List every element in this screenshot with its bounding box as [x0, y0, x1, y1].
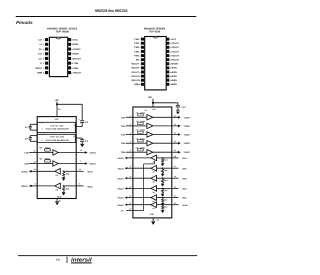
- wire EN riser: [154, 161, 156, 164]
- svg-text:GND: GND: [73, 43, 78, 46]
- ground R2 right: [162, 172, 164, 175]
- svg-text:R5IN: R5IN: [182, 197, 187, 200]
- ground R4 right: [162, 192, 164, 195]
- svg-text:7: 7: [140, 63, 141, 66]
- svg-text:23: 23: [174, 123, 176, 126]
- svg-text:R1OUT: R1OUT: [118, 157, 125, 160]
- svg-text:4: 4: [43, 53, 44, 56]
- node U2 pin 15 R3IN: [166, 75, 169, 78]
- node U2 pin 2 T2IN: [141, 42, 144, 45]
- svg-text:T3OUT: T3OUT: [184, 134, 191, 137]
- svg-text:T1IN: T1IN: [24, 152, 29, 155]
- svg-text:R1OUT: R1OUT: [73, 57, 81, 60]
- svg-text:8: 8: [140, 67, 141, 70]
- svg-text:R4IN: R4IN: [182, 188, 187, 191]
- svg-text:12: 12: [157, 219, 159, 222]
- wire VCC to C1 bypass: [153, 102, 178, 104]
- svg-text:+5V: +5V: [148, 96, 153, 99]
- charge pump block voltage doubler: [37, 122, 75, 132]
- node U2 pin 16 R2IN: [166, 71, 169, 74]
- node U2 pin 20 T4OUT: [166, 54, 169, 57]
- node U1 pin 16 VCC: [68, 38, 71, 41]
- svg-text:3: 3: [43, 48, 44, 51]
- svg-text:3: 3: [140, 46, 141, 49]
- node U2 pin 4 T4IN: [141, 50, 144, 53]
- svg-text:C1-: C1-: [39, 48, 43, 51]
- svg-text:T4IN: T4IN: [134, 50, 139, 53]
- capacitor C1 bypass: [176, 104, 180, 106]
- node U1 pin 7 T2OUT: [45, 66, 48, 69]
- svg-text:R2: R2: [56, 189, 58, 192]
- svg-text:9: 9: [140, 71, 141, 74]
- svg-text:16: 16: [174, 175, 176, 178]
- svg-text:R2IN: R2IN: [88, 185, 93, 188]
- svg-text:9: 9: [71, 71, 72, 74]
- wire T4OUT output: [153, 142, 178, 144]
- wire R4OUT output left: [133, 187, 151, 189]
- op-amp receiver R6 right: [151, 202, 157, 208]
- node U2 pin 5 T5IN: [141, 54, 144, 57]
- svg-text:R5OUT: R5OUT: [118, 197, 125, 200]
- svg-text:24: 24: [174, 114, 176, 117]
- svg-text:R2IN: R2IN: [182, 167, 187, 170]
- svg-text:+5V: +5V: [54, 99, 59, 102]
- svg-text:4: 4: [140, 50, 141, 53]
- wire R1IN input right: [172, 157, 179, 159]
- wire T1OUT output: [58, 152, 85, 154]
- resistor 5k R1: [64, 170, 77, 172]
- node U1 pin 15 GND: [68, 43, 71, 46]
- resistor 5k R6 right: [157, 204, 172, 206]
- svg-text:R1: R1: [56, 174, 58, 177]
- wire SHDN input right: [172, 204, 179, 206]
- op-amp receiver R3 right: [151, 175, 157, 181]
- svg-text:R1IN: R1IN: [88, 171, 93, 174]
- svg-text:T1IN: T1IN: [121, 116, 126, 119]
- ground R5 right: [162, 202, 164, 205]
- svg-text:5: 5: [140, 54, 141, 57]
- wire T2OUT output: [58, 163, 85, 165]
- op-amp U3 functional block HIN202: [37, 117, 76, 199]
- svg-text:15: 15: [59, 200, 61, 203]
- svg-text:11: 11: [129, 195, 131, 198]
- op-amp driver T2: [37, 163, 53, 165]
- svg-text:R1OUT: R1OUT: [132, 63, 140, 66]
- node U1 pin 10 T2IN: [68, 66, 71, 69]
- wire T4IN input: [126, 142, 133, 144]
- node U2 pin 22 T2OUT: [166, 46, 169, 49]
- svg-text:T2OUT: T2OUT: [35, 67, 43, 70]
- svg-text:R5OUT: R5OUT: [118, 204, 125, 207]
- svg-text:VOLTAGE DOUBLER: VOLTAGE DOUBLER: [45, 128, 69, 131]
- wire footer-rule: [18, 254, 197, 257]
- node U2 pin 24 VCC: [166, 38, 169, 41]
- svg-text:T1OUT: T1OUT: [184, 116, 191, 119]
- svg-text:22: 22: [174, 132, 176, 135]
- wire T5OUT output: [153, 151, 178, 153]
- svg-text:VOLTAGE INVERTER: VOLTAGE INVERTER: [45, 139, 69, 142]
- node U1 pin 5 C2-: [45, 57, 48, 60]
- node U2 pin 9 R3OUT: [141, 71, 144, 74]
- node U2 pin 10 R4OUT: [141, 75, 144, 78]
- svg-text:5: 5: [130, 149, 131, 152]
- svg-text:R2OUT: R2OUT: [132, 67, 140, 70]
- wire R1OUT output: [37, 170, 55, 172]
- resistor 5k R1 right: [157, 157, 172, 159]
- svg-text:T1OUT: T1OUT: [73, 48, 81, 51]
- node U2 pin 18 SHDN: [166, 62, 169, 65]
- svg-text:6: 6: [74, 135, 75, 138]
- wire R2IN input right: [172, 167, 179, 169]
- op-amp U4 functional block HIN205: [133, 107, 172, 218]
- node U2 pin 6 EN: [141, 58, 144, 61]
- svg-text:T5OUT: T5OUT: [184, 151, 191, 154]
- svg-text:5kΩ: 5kΩ: [66, 187, 70, 190]
- node U2 pin 8 R2OUT: [141, 66, 144, 69]
- svg-text:T2OUT: T2OUT: [89, 163, 97, 166]
- wire T1IN input: [126, 116, 133, 118]
- svg-text:R3IN: R3IN: [172, 75, 177, 78]
- svg-text:13: 13: [129, 208, 131, 211]
- svg-text:R2IN: R2IN: [172, 71, 177, 74]
- svg-text:17: 17: [174, 165, 176, 168]
- wire VCC to C3 branch: [57, 103, 82, 105]
- node U2 pin 7 R1OUT: [141, 62, 144, 65]
- wire R5IN input right: [172, 197, 179, 199]
- ground main U3: [56, 199, 58, 202]
- svg-text:T2IN: T2IN: [73, 67, 78, 70]
- svg-text:T2OUT: T2OUT: [184, 125, 191, 128]
- wire footer divider: [66, 257, 69, 263]
- svg-text:R4OUT: R4OUT: [118, 188, 125, 191]
- svg-text:1: 1: [43, 39, 44, 42]
- svg-text:12: 12: [129, 202, 131, 205]
- node U2 pin 17 R1IN: [166, 66, 169, 69]
- svg-text:R1IN: R1IN: [182, 157, 187, 160]
- svg-text:R1OUT: R1OUT: [21, 170, 29, 173]
- svg-text:T2IN: T2IN: [24, 163, 29, 166]
- svg-text:2: 2: [130, 123, 131, 126]
- node U2 pin 3 T3IN: [141, 46, 144, 49]
- svg-text:R2OUT: R2OUT: [73, 71, 81, 74]
- svg-text:21: 21: [174, 140, 176, 143]
- svg-text:16: 16: [58, 108, 60, 111]
- op-amp driver T5: [133, 151, 147, 153]
- svg-text:7: 7: [130, 155, 131, 158]
- node U1 pin 3 C1-: [45, 47, 48, 50]
- svg-text:7: 7: [43, 67, 44, 70]
- node U1 pin 2 V+: [45, 43, 48, 46]
- wire T1IN input: [29, 152, 37, 154]
- svg-text:R1IN: R1IN: [172, 67, 177, 70]
- svg-text:T4OUT: T4OUT: [172, 54, 180, 57]
- node U1 pin 11 T1IN: [68, 62, 71, 65]
- svg-text:9: 9: [35, 183, 36, 186]
- ground R6 right: [162, 209, 164, 212]
- svg-text:11: 11: [34, 149, 36, 152]
- node U1 pin 13 R1IN: [68, 52, 71, 55]
- svg-text:14: 14: [80, 149, 82, 152]
- svg-text:6: 6: [43, 62, 44, 65]
- svg-text:2: 2: [140, 42, 141, 45]
- node U2 pin 11 R5OUT: [141, 79, 144, 82]
- svg-text:SHDN: SHDN: [182, 204, 188, 207]
- svg-text:R2IN: R2IN: [37, 71, 42, 74]
- svg-text:+5V TO +10V: +5V TO +10V: [50, 124, 64, 127]
- ground below C1 bypass: [177, 107, 179, 109]
- wire R1IN input: [76, 170, 83, 172]
- capacitor C1: [30, 123, 37, 125]
- svg-text:1: 1: [140, 38, 141, 41]
- resistor 5k R4 right: [157, 187, 172, 189]
- node U2 pin 1 T1IN: [141, 38, 144, 41]
- svg-text:5: 5: [41, 139, 42, 142]
- svg-text:3: 3: [41, 128, 42, 131]
- svg-text:4: 4: [130, 140, 131, 143]
- svg-text:13: 13: [79, 168, 81, 171]
- svg-text:+10V TO -10V: +10V TO -10V: [50, 136, 65, 139]
- svg-text:R1IN: R1IN: [73, 53, 78, 56]
- op-amp U2 package body HIN205 24-lead DIP: [145, 37, 167, 90]
- svg-text:14: 14: [174, 195, 176, 198]
- op-amp receiver R2: [55, 183, 61, 189]
- svg-text:VCC: VCC: [172, 38, 177, 41]
- ground below C4: [81, 142, 83, 143]
- svg-text:R2OUT: R2OUT: [118, 167, 125, 170]
- node U2 pin 23 T1OUT: [166, 42, 169, 45]
- wire R2OUT output left: [133, 167, 151, 169]
- svg-text:8: 8: [43, 71, 44, 74]
- ground R3 right: [162, 182, 164, 185]
- ground R2 resistor: [63, 192, 65, 193]
- wire R3OUT output left: [133, 177, 151, 179]
- charge pump block voltage inverter: [37, 134, 75, 142]
- node U1 pin 6 V-: [45, 62, 48, 65]
- op-amp receiver R2 right: [151, 165, 157, 171]
- wire R5OUT output left: [133, 204, 151, 206]
- svg-text:R4IN: R4IN: [172, 79, 177, 82]
- svg-text:13: 13: [174, 202, 176, 205]
- wire T3OUT output: [153, 134, 178, 136]
- svg-text:T5IN: T5IN: [121, 151, 126, 154]
- svg-text:C2-: C2-: [39, 57, 43, 60]
- node U1 pin 1 C1+: [45, 38, 48, 41]
- svg-text:10: 10: [34, 160, 36, 163]
- op-amp driver T4: [133, 142, 147, 144]
- svg-text:5: 5: [43, 57, 44, 60]
- node U1 pin 9 R2OUT: [68, 71, 71, 74]
- resistor 5k R3 right: [157, 177, 172, 179]
- svg-text:R3IN: R3IN: [182, 177, 187, 180]
- svg-text:15: 15: [174, 185, 176, 188]
- svg-text:R3OUT: R3OUT: [118, 177, 125, 180]
- node U1 pin 4 C2+: [45, 52, 48, 55]
- wire T3IN input: [126, 134, 133, 136]
- svg-text:TOP VIEW: TOP VIEW: [56, 30, 70, 33]
- svg-text:11: 11: [139, 79, 141, 82]
- node U2 pin 13 R5IN: [166, 83, 169, 86]
- wire T1OUT output: [153, 116, 178, 118]
- wire R2IN input: [76, 185, 83, 187]
- capacitor C4: [80, 139, 84, 141]
- svg-text:T2IN: T2IN: [134, 42, 139, 45]
- resistor 5k R2 right: [157, 167, 172, 169]
- wire R1OUT output left: [133, 157, 151, 159]
- wire R5OUT output left: [133, 197, 151, 199]
- svg-text:GND: GND: [57, 195, 62, 198]
- svg-text:8: 8: [79, 183, 80, 186]
- svg-text:R2OUT: R2OUT: [21, 185, 29, 188]
- node U2 pin 14 R4IN: [166, 79, 169, 82]
- svg-text:1: 1: [41, 122, 42, 125]
- svg-text:T3OUT: T3OUT: [172, 50, 180, 53]
- wire T2IN input: [126, 125, 133, 127]
- svg-text:20: 20: [174, 149, 176, 152]
- op-amp driver T1: [133, 116, 147, 118]
- svg-text:10: 10: [139, 75, 141, 78]
- wire VCC feed: [56, 103, 58, 105]
- svg-text:T1IN: T1IN: [73, 62, 78, 65]
- resistor 5k R2: [64, 185, 77, 187]
- svg-text:T4IN: T4IN: [121, 142, 126, 145]
- svg-text:T1IN: T1IN: [134, 38, 139, 41]
- wire EN input: [126, 210, 143, 212]
- svg-text:4: 4: [41, 133, 42, 136]
- svg-text:18: 18: [174, 155, 176, 158]
- node U2 pin 21 T3OUT: [166, 50, 169, 53]
- svg-text:2: 2: [74, 124, 75, 127]
- svg-text:T5IN: T5IN: [134, 54, 139, 57]
- svg-text:7: 7: [80, 160, 81, 163]
- svg-text:6: 6: [140, 59, 141, 62]
- wire R3IN input right: [172, 177, 179, 179]
- svg-text:3: 3: [130, 132, 131, 135]
- svg-text:VCC: VCC: [73, 39, 78, 42]
- svg-text:VCC: VCC: [55, 118, 60, 121]
- svg-text:12: 12: [139, 83, 141, 86]
- svg-text:5kΩ: 5kΩ: [66, 173, 70, 176]
- node U1 pin 14 T1OUT: [68, 47, 71, 50]
- svg-text:T1OUT: T1OUT: [89, 152, 97, 155]
- wire C3 to V+ pin 2: [81, 123, 83, 127]
- wire VCC feed right: [152, 102, 154, 104]
- wire T5IN input: [126, 151, 133, 153]
- wire T2IN input: [29, 163, 37, 165]
- capacitor C2: [30, 135, 37, 137]
- svg-text:10: 10: [129, 185, 131, 188]
- svg-text:T4OUT: T4OUT: [184, 142, 191, 145]
- op-amp receiver R5 right: [151, 195, 157, 201]
- svg-text:2-2: 2-2: [56, 259, 60, 262]
- node U2 pin 19 T5OUT: [166, 58, 169, 61]
- svg-text:2: 2: [43, 43, 44, 46]
- ground R1 resistor: [63, 177, 65, 178]
- op-amp driver T2: [133, 125, 147, 127]
- wire R4IN input right: [172, 187, 179, 189]
- wire R2OUT output: [37, 185, 55, 187]
- svg-text:SHDN: SHDN: [172, 63, 179, 66]
- svg-text:R3OUT: R3OUT: [132, 71, 140, 74]
- svg-text:T2IN: T2IN: [121, 125, 126, 128]
- op-amp driver T3: [133, 134, 147, 136]
- op-amp driver T1: [37, 152, 53, 154]
- svg-text:R5IN: R5IN: [172, 83, 177, 86]
- op-amp U1 package body HIN202 16-lead DIP: [49, 37, 67, 76]
- node U1 pin 12 R1OUT: [68, 57, 71, 60]
- svg-text:T3IN: T3IN: [121, 134, 126, 137]
- ground main U4: [152, 218, 154, 221]
- resistor 5k R5 right: [157, 197, 172, 199]
- svg-text:GND: GND: [150, 213, 155, 216]
- svg-text:Pinouts: Pinouts: [16, 20, 33, 25]
- svg-text:8: 8: [130, 165, 131, 168]
- op-amp receiver R1 right: [151, 155, 157, 161]
- svg-text:T1OUT: T1OUT: [172, 42, 180, 45]
- node U2 pin 12 GND: [141, 83, 144, 86]
- svg-text:T2OUT: T2OUT: [172, 46, 180, 49]
- node U1 pin 8 R2IN: [45, 71, 48, 74]
- svg-text:HIN202IA thru HIN213IA: HIN202IA thru HIN213IA: [95, 8, 128, 13]
- svg-text:TOP VIEW: TOP VIEW: [149, 30, 160, 33]
- wire V- pin 6 to C4: [76, 137, 82, 139]
- op-amp receiver R1: [55, 169, 61, 175]
- svg-text:1: 1: [130, 114, 131, 117]
- svg-text:12: 12: [34, 168, 36, 171]
- capacitor C3: [80, 120, 84, 122]
- op-amp receiver R4 right: [151, 186, 157, 192]
- ground R1 right: [162, 162, 164, 165]
- svg-text:T3IN: T3IN: [134, 46, 139, 49]
- svg-text:9: 9: [130, 175, 131, 178]
- svg-text:T5OUT: T5OUT: [172, 59, 180, 62]
- wire T2OUT output: [153, 125, 178, 127]
- wire header-rule: [16, 16, 196, 17]
